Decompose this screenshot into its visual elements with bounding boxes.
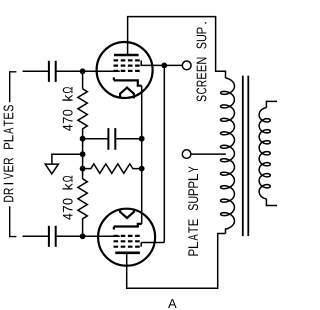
wire divider rail middle: [82, 128, 84, 178]
tube V1 heater: [120, 88, 134, 99]
tube V2 plate: [115, 252, 140, 255]
tube V1 grid row2: [114, 64, 140, 66]
label PLATE SUPPLY: [188, 166, 198, 255]
node grid2 junction: [80, 233, 86, 239]
terminal plate supply: [182, 150, 191, 159]
node bypass junction: [80, 136, 86, 142]
wire divider rail lower: [82, 218, 84, 236]
node cathode-R junction: [80, 166, 86, 172]
wire plate supply tap: [191, 153, 226, 155]
resistor R1 470k: [78, 89, 87, 129]
tube V1 envelope: [97, 42, 153, 98]
label R1 470 kOhm: [62, 87, 72, 131]
tube V1 grid g1 row3: [114, 70, 140, 72]
wire screen terminal lead: [164, 64, 182, 66]
tube V2 grid g2 row3: [114, 246, 140, 248]
label DRIVER PLATES: [4, 105, 14, 202]
node grid1 junction: [80, 68, 86, 74]
wire bypass cap left: [83, 138, 109, 140]
wire secondary top lead: [266, 101, 277, 107]
tube V2 heater: [120, 209, 134, 218]
ground symbol: [45, 164, 58, 174]
tube V1 plate: [114, 54, 139, 57]
capacitor C3 bypass: [108, 128, 115, 150]
terminal screen supply: [182, 61, 191, 70]
tube V2 screen lead: [141, 243, 164, 247]
tube V2 grid g1 row1: [114, 235, 140, 237]
tube V2 envelope: [98, 209, 155, 266]
wire divider rail upper: [82, 71, 84, 89]
tube V2 grid row2: [114, 240, 140, 242]
wire grid bottom: [23, 235, 120, 237]
node screen junction: [161, 63, 167, 69]
node bypass cathode junction: [139, 136, 145, 142]
label SCREEN SUP.: [197, 22, 207, 101]
resistor R2 470k: [78, 179, 87, 219]
wire bottom plate rail: [127, 234, 226, 289]
transformer secondary coil: [259, 108, 270, 199]
transformer primary coil: [221, 78, 235, 234]
tube V1 cathode: [114, 77, 142, 85]
resistor R3 cathode: [83, 164, 142, 173]
wire grid top: [23, 70, 120, 72]
node ground junction: [80, 151, 86, 157]
node cathode-R right junction: [139, 166, 145, 172]
tube V2 cathode: [114, 224, 142, 230]
wire ground lead: [52, 154, 83, 163]
wire secondary bottom lead: [266, 199, 277, 206]
wire top plate rail: [128, 17, 226, 78]
capacitor C1: [49, 61, 56, 82]
wire screen rail: [163, 65, 165, 242]
transformer core: [243, 76, 249, 237]
tube V1 grid g2 row1: [114, 59, 140, 61]
capacitor C2: [49, 226, 56, 247]
wire bypass cap right: [115, 138, 141, 140]
bracket driver plates: [10, 72, 17, 237]
tube V1 screen lead: [141, 60, 164, 65]
label A: [168, 299, 177, 308]
wire cathode rail: [141, 86, 143, 224]
label R2 470 kOhm: [62, 176, 72, 220]
